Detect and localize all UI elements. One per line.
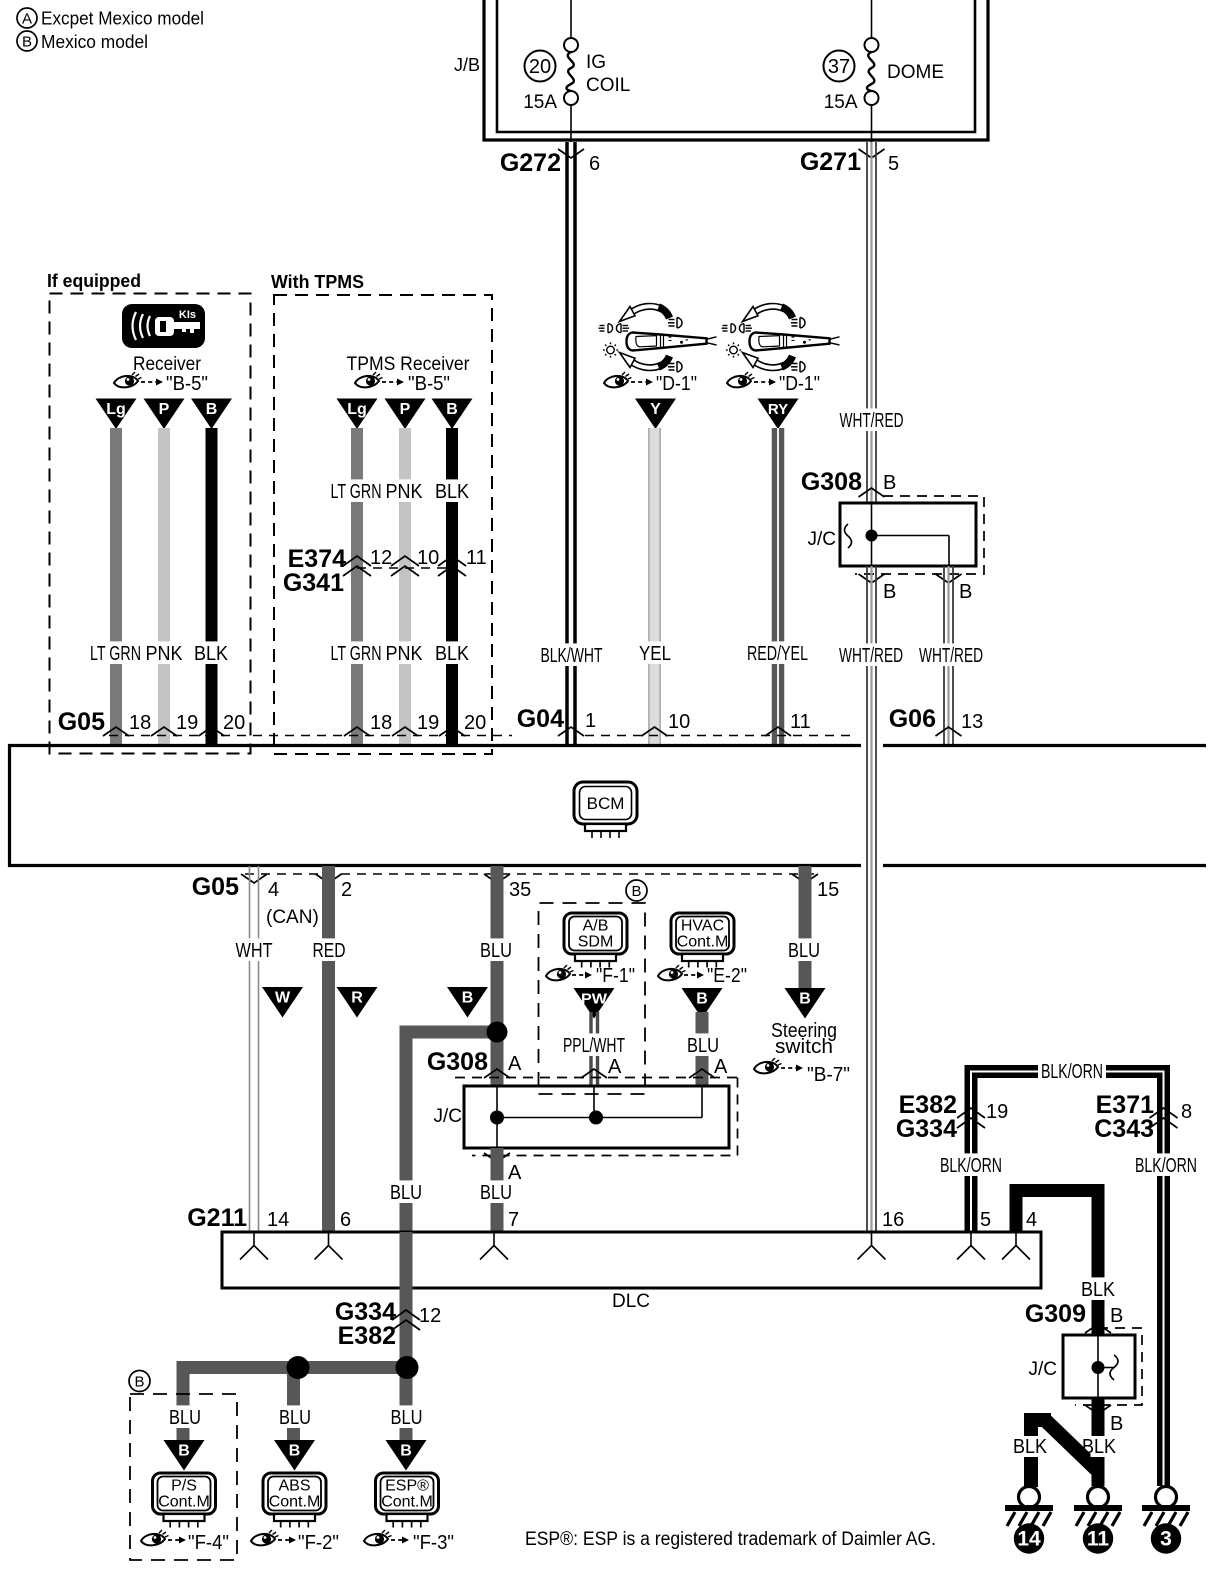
svg-text:4: 4: [268, 879, 279, 901]
wire BLK/ORN loop top: [971, 1072, 1164, 1487]
svg-text:B: B: [289, 1443, 301, 1460]
connector triangle B (steering switch): [785, 988, 826, 1019]
connector triangle Y (turn signal): [635, 399, 676, 430]
svg-text:Lg: Lg: [106, 401, 126, 418]
junction connector J/C G309 box: [1063, 1335, 1135, 1398]
svg-text:PPL/WHT: PPL/WHT: [563, 1035, 625, 1057]
wire PPL/WHT to J/C G308 pin A: [589, 1012, 592, 1086]
destination triangle W: [262, 987, 303, 1018]
svg-text:A: A: [22, 10, 32, 27]
svg-text:G341: G341: [283, 569, 344, 597]
svg-text:"D-1": "D-1": [779, 373, 820, 395]
svg-text:14: 14: [1017, 1528, 1041, 1551]
svg-text:Excpet Mexico model: Excpet Mexico model: [41, 9, 204, 29]
svg-text:6: 6: [589, 153, 600, 175]
svg-text:G06: G06: [889, 705, 936, 733]
svg-text:B: B: [799, 991, 811, 1008]
svg-text:SDM: SDM: [578, 934, 614, 951]
ground 14: [1019, 1487, 1040, 1508]
svg-text:6: 6: [340, 1209, 351, 1231]
eye reference F-1: [546, 965, 574, 980]
svg-text:B: B: [883, 472, 896, 494]
dashed box B model (A/B SDM): [539, 903, 646, 1086]
svg-text:TPMS Receiver: TPMS Receiver: [347, 354, 471, 375]
svg-text:"E-2": "E-2": [707, 965, 747, 987]
fuse 20 15A IG COIL: [570, 0, 572, 38]
svg-text:12: 12: [419, 1305, 441, 1327]
connector triangles B to modules: [164, 1440, 205, 1471]
svg-text:"F-2": "F-2": [298, 1532, 339, 1554]
svg-text:16: 16: [882, 1209, 904, 1231]
svg-text:C343: C343: [1094, 1115, 1154, 1143]
svg-text:LT GRN: LT GRN: [90, 643, 141, 665]
wire BLU BCM pin35 to J/C G308 and DLC pin7: [491, 866, 504, 1086]
svg-text:BLK/WHT: BLK/WHT: [541, 645, 603, 667]
wire YEL to G04 pin 10: [648, 428, 661, 744]
keyless receiver icon KIs: [122, 304, 205, 348]
junction block J/B: [484, 0, 988, 140]
svg-text:BLK/ORN: BLK/ORN: [940, 1155, 1002, 1177]
svg-text:B: B: [696, 991, 708, 1008]
eye reference to B-5 (TPMS): [355, 372, 383, 387]
svg-text:B: B: [134, 1373, 144, 1390]
svg-text:20: 20: [529, 56, 551, 78]
svg-text:15A: 15A: [523, 92, 557, 113]
svg-text:5: 5: [888, 153, 899, 175]
junction connector J/C G308 lower box: [464, 1086, 729, 1148]
svg-text:11: 11: [1087, 1528, 1110, 1551]
svg-text:DLC: DLC: [612, 1291, 650, 1312]
legend B: Mexico model: [17, 31, 37, 51]
svg-text:WHT: WHT: [236, 940, 273, 962]
svg-text:WHT/RED: WHT/RED: [919, 645, 983, 667]
svg-text:R: R: [351, 990, 363, 1007]
junction dot in J/C G308: [866, 530, 878, 542]
svg-text:4: 4: [1026, 1209, 1037, 1231]
svg-text:BLK: BLK: [1013, 1436, 1048, 1458]
svg-text:ESP®: ESP is a registered trad: ESP®: ESP is a registered trademark of D…: [525, 1529, 936, 1550]
wire BLU HVAC to J/C G308 pin A: [696, 1012, 709, 1086]
svg-text:"F-4": "F-4": [188, 1532, 229, 1554]
svg-text:COIL: COIL: [586, 75, 630, 96]
J/C G309 bottom pin B: [1085, 1405, 1111, 1414]
svg-text:"B-5": "B-5": [408, 373, 450, 395]
svg-text:1: 1: [585, 710, 596, 732]
svg-text:A/B: A/B: [583, 918, 609, 935]
svg-text:G308: G308: [427, 1048, 488, 1076]
wire BLU through DLC to splice G334/E382: [400, 1232, 413, 1361]
svg-text:3: 3: [1160, 1528, 1172, 1551]
svg-text:18: 18: [129, 712, 151, 734]
eye reference F-3: [364, 1530, 392, 1545]
svg-text:BLU: BLU: [169, 1407, 201, 1429]
svg-text:Lg: Lg: [347, 401, 367, 418]
module ABS Cont.M: [263, 1473, 326, 1514]
destination triangle R: [337, 987, 378, 1018]
svg-text:PNK: PNK: [146, 643, 184, 665]
wire BLK receiver pin20: [206, 428, 218, 744]
junction dots in J/C: [490, 1111, 504, 1125]
svg-text:PW: PW: [581, 991, 608, 1008]
svg-text:8: 8: [1181, 1101, 1192, 1123]
svg-text:18: 18: [370, 712, 392, 734]
svg-text:BLU: BLU: [480, 1182, 512, 1204]
svg-text:DOME: DOME: [887, 62, 944, 83]
svg-text:B: B: [446, 401, 458, 418]
svg-text:J/C: J/C: [808, 529, 837, 550]
svg-text:WHT/RED: WHT/RED: [839, 645, 903, 667]
eye reference to B-5: [114, 372, 142, 387]
module P/S Cont.M: [153, 1473, 216, 1514]
svg-text:LT GRN: LT GRN: [331, 643, 382, 665]
legend A: Except Mexico model: [17, 8, 37, 28]
svg-text:G04: G04: [517, 705, 564, 733]
svg-text:Mexico model: Mexico model: [41, 32, 148, 52]
svg-text:11: 11: [466, 547, 487, 569]
svg-text:15A: 15A: [824, 92, 858, 113]
svg-text:Y: Y: [650, 401, 661, 418]
svg-text:BLK: BLK: [1081, 1279, 1116, 1301]
svg-text:"F-3": "F-3": [413, 1532, 454, 1554]
combination switch icon 1: [599, 306, 717, 372]
junction dot in J/C G309: [1092, 1361, 1105, 1374]
svg-text:WHT/RED: WHT/RED: [840, 410, 904, 432]
svg-text:PNK: PNK: [386, 481, 424, 503]
svg-text:B: B: [1110, 1413, 1123, 1435]
module HVAC Cont.M: [671, 913, 734, 954]
wire WHT (CAN) BCM pin4 to G211 pin14: [249, 866, 251, 1232]
svg-text:B: B: [22, 33, 32, 50]
ground 3: [1156, 1487, 1177, 1508]
svg-text:20: 20: [223, 712, 245, 734]
J/C G308 bottom pins B B: [859, 574, 885, 583]
svg-text:BLU: BLU: [391, 1407, 423, 1429]
wire BLK/WHT fuse20 to BCM G04 pin1: [565, 142, 569, 744]
wire LT GRN TPMS: [351, 428, 363, 744]
svg-text:W: W: [275, 990, 291, 1007]
eye reference E-2: [658, 965, 686, 980]
wire RED BCM pin2 to G211 pin6: [322, 866, 335, 1232]
junction connector J/C G308 (dashed optional outline): [855, 496, 984, 574]
wire LT GRN receiver pin18: [110, 428, 122, 744]
svg-text:If equipped: If equipped: [47, 271, 141, 291]
connector triangle RY (turn signal): [758, 399, 799, 430]
svg-text:Cont.M: Cont.M: [269, 1494, 321, 1511]
svg-text:19: 19: [417, 712, 439, 734]
svg-text:A: A: [508, 1053, 522, 1075]
svg-text:B: B: [178, 1443, 190, 1460]
svg-text:10: 10: [417, 547, 439, 569]
wire WHT/RED J/C to DLC pin16: [866, 566, 868, 1232]
svg-text:G271: G271: [800, 148, 861, 176]
connector triangle PW: [574, 988, 615, 1019]
svg-text:Cont.M: Cont.M: [381, 1494, 433, 1511]
svg-text:BLK: BLK: [1082, 1436, 1117, 1458]
svg-text:35: 35: [509, 879, 531, 901]
svg-text:G272: G272: [500, 149, 561, 177]
module A/B SDM: [564, 913, 627, 954]
junction connector J/C G308 lower (dashed outline): [472, 1078, 738, 1156]
junction connector J/C G308 box: [840, 503, 976, 566]
junction connector J/C G309 (dashed outline): [1075, 1328, 1142, 1405]
connector triangles Lg P B (receiver): [96, 399, 137, 430]
svg-text:J/B: J/B: [454, 55, 480, 75]
svg-text:KIs: KIs: [179, 309, 196, 321]
svg-text:20: 20: [464, 712, 486, 734]
wire PNK receiver pin19: [158, 428, 170, 744]
eye reference B-7: [754, 1058, 782, 1073]
svg-text:G05: G05: [58, 708, 105, 736]
svg-text:11: 11: [790, 711, 811, 733]
J/C bottom pin A: [484, 1153, 510, 1162]
svg-text:BLU: BLU: [279, 1407, 311, 1429]
svg-text:B: B: [959, 581, 972, 603]
svg-text:G334: G334: [896, 1115, 957, 1143]
wire BLU J/C to DLC pin7: [491, 1148, 504, 1232]
svg-text:B: B: [1110, 1305, 1123, 1327]
combination switch icon 2: [722, 306, 840, 372]
wire WHT/RED J/C to BCM G06 pin13: [943, 566, 945, 744]
svg-text:"B-5": "B-5": [166, 373, 208, 395]
svg-text:37: 37: [828, 56, 850, 78]
svg-text:15: 15: [817, 879, 839, 901]
circled B (Mexico, P/S): [129, 1371, 150, 1392]
svg-text:12: 12: [370, 547, 392, 569]
svg-text:A: A: [608, 1056, 622, 1078]
svg-text:BLK: BLK: [194, 643, 229, 665]
svg-text:B: B: [400, 1443, 412, 1460]
svg-text:19: 19: [176, 712, 198, 734]
connector triangles Lg P B (TPMS): [337, 399, 378, 430]
wire BLK DLC pin4 to J/C G309: [1016, 1191, 1098, 1336]
eye reference F-2: [251, 1530, 279, 1545]
svg-text:J/C: J/C: [1029, 1359, 1058, 1380]
junction dot BLU: [487, 1022, 508, 1043]
svg-text:RED/YEL: RED/YEL: [747, 643, 808, 665]
svg-text:B: B: [631, 883, 641, 900]
wire BLK TPMS: [446, 428, 458, 744]
dashed box B model (P/S Cont.M): [130, 1394, 237, 1560]
svg-text:G211: G211: [187, 1204, 247, 1232]
svg-text:YEL: YEL: [639, 643, 671, 665]
BCM icon: [574, 782, 637, 824]
branch wire BLU to G334/E382 splice: [406, 1026, 497, 1039]
svg-text:13: 13: [961, 711, 983, 733]
svg-text:ESP®: ESP®: [385, 1478, 429, 1495]
svg-text:PNK: PNK: [386, 643, 424, 665]
svg-text:BLU: BLU: [480, 940, 512, 962]
svg-text:BLU: BLU: [788, 940, 820, 962]
svg-text:(CAN): (CAN): [266, 907, 319, 928]
svg-text:B: B: [462, 990, 474, 1007]
svg-text:Receiver: Receiver: [133, 354, 202, 375]
svg-text:B: B: [883, 581, 896, 603]
svg-text:J/C: J/C: [434, 1106, 463, 1127]
svg-text:14: 14: [267, 1209, 289, 1231]
wire PNK TPMS: [399, 428, 411, 744]
svg-text:P/S: P/S: [171, 1478, 197, 1495]
svg-text:Cont.M: Cont.M: [677, 934, 729, 951]
svg-text:19: 19: [986, 1101, 1008, 1123]
svg-text:G308: G308: [801, 468, 862, 496]
svg-text:BCM: BCM: [587, 794, 625, 813]
svg-text:P: P: [400, 401, 411, 418]
BCM module box: [8, 744, 861, 747]
wire BLK branch to ground 14: [1024, 1413, 1038, 1487]
svg-text:10: 10: [668, 711, 690, 733]
eye reference to D-1 (1): [604, 372, 632, 387]
svg-text:Cont.M: Cont.M: [158, 1494, 210, 1511]
svg-text:BLU: BLU: [687, 1035, 719, 1057]
svg-text:7: 7: [508, 1209, 519, 1231]
wire RED/YEL to G04 pin 11: [772, 428, 785, 744]
junction dots on BLU bus: [287, 1356, 310, 1379]
wire BLK J/C G309 to ground 11: [1092, 1398, 1105, 1486]
svg-text:5: 5: [980, 1209, 991, 1231]
svg-text:ABS: ABS: [278, 1478, 310, 1495]
svg-text:P: P: [159, 401, 170, 418]
circled B (Mexico): [626, 880, 647, 901]
svg-text:BLK: BLK: [435, 643, 470, 665]
svg-text:2: 2: [341, 879, 352, 901]
ground 11: [1088, 1487, 1109, 1508]
DLC pin claws: [240, 1234, 268, 1260]
eye reference to D-1 (2): [727, 372, 755, 387]
svg-text:BLK/ORN: BLK/ORN: [1041, 1061, 1103, 1083]
svg-text:"F-1": "F-1": [596, 965, 635, 987]
svg-text:E382: E382: [338, 1322, 396, 1350]
svg-text:RY: RY: [768, 401, 788, 418]
svg-text:switch: switch: [775, 1036, 833, 1058]
svg-text:HVAC: HVAC: [681, 918, 724, 935]
DLC box: [222, 1232, 1041, 1288]
svg-text:With TPMS: With TPMS: [271, 272, 364, 292]
svg-text:G05: G05: [192, 873, 239, 901]
svg-text:BLU: BLU: [390, 1182, 422, 1204]
svg-text:BLK/ORN: BLK/ORN: [1135, 1155, 1197, 1177]
wire BLU BCM pin15 to steering switch: [799, 866, 812, 990]
wire WHT/RED fuse37 to J/C G308: [866, 142, 868, 503]
wire BLU bus to modules: [183, 1368, 406, 1441]
svg-text:"D-1": "D-1": [656, 373, 697, 395]
svg-text:G309: G309: [1025, 1300, 1086, 1328]
eye reference F-4: [141, 1530, 169, 1545]
svg-text:LT GRN: LT GRN: [331, 481, 382, 503]
svg-text:A: A: [714, 1056, 728, 1078]
module ESP Cont.M: [376, 1473, 439, 1514]
destination triangle B: [447, 987, 488, 1018]
svg-text:RED: RED: [313, 940, 346, 962]
connector triangle B (HVAC): [682, 988, 723, 1019]
svg-text:"B-7": "B-7": [807, 1064, 850, 1086]
svg-text:BLK: BLK: [435, 481, 470, 503]
svg-text:B: B: [206, 401, 218, 418]
svg-text:IG: IG: [586, 52, 606, 73]
fuse 37 15A DOME: [871, 0, 873, 38]
